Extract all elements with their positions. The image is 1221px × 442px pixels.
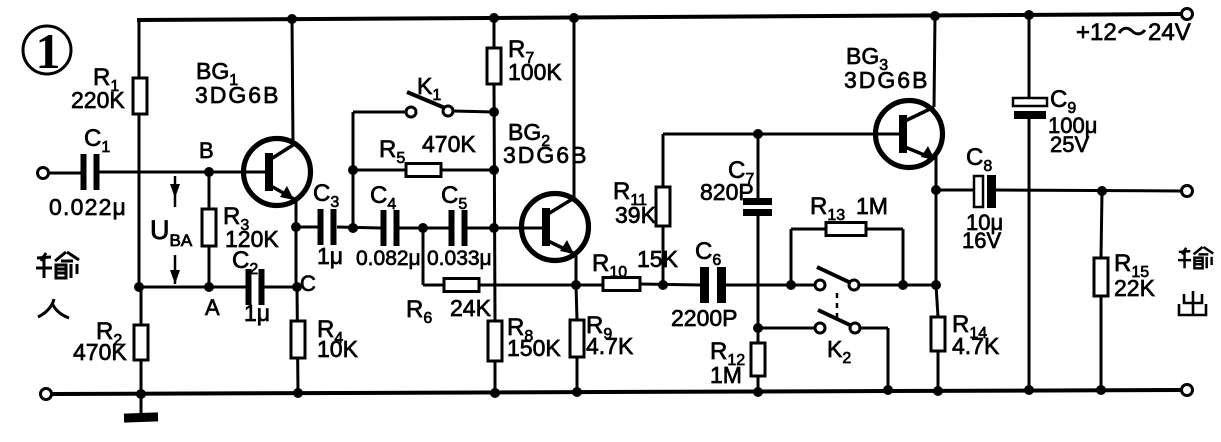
svg-text:C: C xyxy=(300,271,316,296)
capacitor C4 0.082u xyxy=(381,210,400,246)
junction R5 right / R7 branch xyxy=(489,165,499,175)
wire C5 to BG2 base via junction xyxy=(467,227,546,230)
wire R11 top lead to BG3 base line xyxy=(662,134,665,187)
input terminal upper xyxy=(38,168,49,179)
junction C3 / C4 / K1 branch xyxy=(348,223,358,233)
voltage U_BA annotation arrows xyxy=(170,176,180,284)
junction C6 / R13 / K2 upper xyxy=(786,280,796,290)
svg-text:B: B xyxy=(199,138,214,163)
wire BG3 collector to top rail xyxy=(934,16,935,107)
svg-text:1: 1 xyxy=(36,23,61,79)
resistor R4 body 10K xyxy=(291,321,305,358)
capacitor C2 1u xyxy=(246,269,265,305)
wire R5 right lead xyxy=(441,169,494,172)
wire node A line left of C2 xyxy=(139,286,246,289)
wire R6 to BG2 emitter node xyxy=(479,284,576,287)
wire C8 to output terminal xyxy=(995,190,1181,191)
wire K2 lower right contact xyxy=(860,327,888,330)
svg-text:10K: 10K xyxy=(317,336,359,362)
wire bottom ground rail xyxy=(52,390,1181,394)
label output 输 xyxy=(1178,247,1213,268)
wire BG3 emitter down through C8 node xyxy=(935,155,938,285)
junction R13 right / K2 upper line xyxy=(898,280,908,290)
output terminal lower xyxy=(1182,385,1193,396)
switch K2 upper pole xyxy=(815,267,859,290)
resistor R5 body 470K xyxy=(406,164,441,177)
svg-text:A: A xyxy=(205,295,220,320)
capacitor C8 10u 16V electrolytic xyxy=(974,175,996,208)
transistor BG1 3DG6B xyxy=(244,139,311,206)
wire BG1 emitter to C3 xyxy=(296,226,318,229)
junction bottom rail / R4 xyxy=(293,388,303,398)
wire BG3 base line xyxy=(663,133,900,136)
svg-text:100K: 100K xyxy=(508,59,562,85)
svg-text:39K: 39K xyxy=(615,202,657,228)
wire R11 bottom lead xyxy=(662,226,665,285)
svg-text:16V: 16V xyxy=(962,228,1001,253)
junction bottom rail / R12 xyxy=(753,387,763,397)
wire R6 left lead xyxy=(423,284,444,287)
wire BG1 emitter down to node C xyxy=(295,199,298,287)
svg-text:3DG6B: 3DG6B xyxy=(195,82,280,108)
svg-text:1μ: 1μ xyxy=(317,243,343,269)
capacitor C3 1u xyxy=(318,209,337,245)
svg-text:0.033μ: 0.033μ xyxy=(427,247,492,270)
capacitor C6 2200P xyxy=(700,267,726,303)
wire R14 to bottom rail xyxy=(937,351,940,391)
svg-text:150K: 150K xyxy=(507,335,561,361)
switch K2 gang link (dashed) xyxy=(836,293,839,322)
wire R1 vertical branch (top rail to node A) xyxy=(138,20,141,287)
svg-text:15K: 15K xyxy=(637,246,679,272)
junction BG2 emitter / R6 / R9 / R10 xyxy=(571,280,581,290)
junction bottom rail / R8 xyxy=(490,388,500,398)
junction R5 left / K1 branch xyxy=(348,165,358,175)
wire R13 right lead xyxy=(866,228,903,231)
junction top rail / BG1 collector xyxy=(287,14,297,24)
junction BG3 base line / C7 xyxy=(753,129,763,139)
wire BG2 collector to top rail xyxy=(573,18,576,198)
wire input terminal to C1 xyxy=(49,172,81,175)
svg-text:1μ: 1μ xyxy=(244,300,270,326)
junction bottom rail / R2 / ground xyxy=(136,389,146,399)
resistor R6 body 24K xyxy=(444,279,479,292)
label input 输 xyxy=(36,252,79,278)
svg-text:+12: +12 xyxy=(1076,19,1117,46)
junction top rail / C9 xyxy=(1024,10,1034,20)
wire C3 to C4 via junction xyxy=(337,227,381,228)
wire R13 right vertical xyxy=(902,229,905,285)
figure number 1 in circle xyxy=(23,23,71,79)
svg-text:25V: 25V xyxy=(1050,132,1089,157)
wire top rail to R7 xyxy=(493,18,496,48)
svg-text:0.022μ: 0.022μ xyxy=(49,194,127,220)
wire R3 branch node B to node A xyxy=(208,172,211,287)
svg-text:0.082μ: 0.082μ xyxy=(356,247,421,270)
wire emitter node to R9 xyxy=(576,285,577,320)
wire R15 to bottom rail xyxy=(1100,296,1103,390)
svg-text:470K: 470K xyxy=(422,131,476,157)
output terminal upper xyxy=(1182,186,1193,197)
wire R12 top lead xyxy=(757,328,760,343)
junction BG1 emitter / C3 xyxy=(291,222,301,232)
ground symbol xyxy=(124,394,158,423)
capacitor C1 0.022u xyxy=(81,154,100,190)
svg-text:820P: 820P xyxy=(700,179,754,205)
wire C4 to C5 via junction xyxy=(399,227,449,230)
svg-text:22K: 22K xyxy=(1114,275,1156,301)
junction top rail / BG2 collector xyxy=(569,13,579,23)
junction bottom rail / R9 xyxy=(572,387,582,397)
junction C4 / C5 / R6 branch xyxy=(418,223,428,233)
svg-text:1M: 1M xyxy=(710,362,742,388)
resistor R3 body 120K xyxy=(202,209,216,246)
junction bottom rail / K2 lower branch xyxy=(883,385,893,395)
junction BG3 emitter / C8 xyxy=(931,185,941,195)
wire R10 to C6 via R11 junction xyxy=(640,284,701,285)
wire R5 left lead xyxy=(353,169,406,172)
junction C5 / BG2 base / R8 branch xyxy=(489,223,499,233)
svg-text:4.7K: 4.7K xyxy=(586,333,634,359)
junction top rail / BG3 collector xyxy=(930,11,940,21)
resistor R14 body 4.7K xyxy=(931,317,945,351)
wire junction C3-C4 up to K1 xyxy=(352,112,355,228)
svg-text:24V: 24V xyxy=(1148,19,1191,46)
wire BG2 emitter down xyxy=(575,253,578,285)
resistor R1 body 220K xyxy=(133,78,147,114)
transistor BG2 3DG6B xyxy=(522,194,589,261)
wire R15 top lead xyxy=(1101,191,1102,258)
resistor R15 body 22K xyxy=(1094,258,1108,296)
wire R9 to bottom rail xyxy=(576,357,579,392)
node B junction xyxy=(204,167,214,177)
wire K1 right contact to R7 node xyxy=(453,111,494,112)
wire R2 branch node A to bottom rail xyxy=(140,287,143,394)
resistor R2 body 470K xyxy=(134,325,148,360)
svg-text:1M: 1M xyxy=(856,193,888,219)
svg-text:2200P: 2200P xyxy=(671,305,738,331)
junction bottom rail / C9 xyxy=(1024,385,1034,395)
resistor R8 body 150K xyxy=(488,321,502,361)
wire C7 bottom lead to R12 node xyxy=(757,216,760,328)
svg-text:470K: 470K xyxy=(73,339,127,365)
junction top rail / R7 xyxy=(489,13,499,23)
wire to K1 left contact xyxy=(353,111,406,114)
svg-text:24K: 24K xyxy=(450,295,492,321)
svg-text:4.7K: 4.7K xyxy=(952,333,1000,359)
wire emitter node to R14 xyxy=(936,285,938,317)
wire K2 lower to bottom rail xyxy=(887,328,890,390)
node C junction xyxy=(292,282,302,292)
junction bottom rail / R15 xyxy=(1096,385,1106,395)
svg-text:3DG6B: 3DG6B xyxy=(844,67,929,93)
node A junction at R1/R2 xyxy=(134,282,144,292)
wire C1 to BG1 base through node B xyxy=(99,171,266,174)
wire R7 bottom through K1/R5 junctions down to R8 xyxy=(494,84,495,321)
wire top supply rail xyxy=(137,14,1181,20)
transistor BG3 3DG6B xyxy=(876,101,943,168)
wire top rail to C9 xyxy=(1028,15,1031,98)
wire node C through R4 to bottom rail xyxy=(297,287,298,393)
junction BG3 emitter / R14 / K2 line xyxy=(931,280,941,290)
power supply terminal +12~24V xyxy=(1182,9,1193,20)
junction K1 / R7 xyxy=(489,107,499,117)
wire C2 to node C xyxy=(264,286,297,289)
wire R13 left lead xyxy=(791,228,826,231)
capacitor C5 0.033u xyxy=(449,210,468,246)
switch K2 lower pole xyxy=(815,310,860,333)
svg-text:220K: 220K xyxy=(71,87,125,113)
label output 出 xyxy=(1179,291,1206,315)
wire R10 left lead xyxy=(576,284,603,287)
wire C8 left lead xyxy=(936,189,974,192)
switch K1 xyxy=(406,92,453,117)
resistor R13 body 1M xyxy=(826,223,866,236)
wire R8 to bottom rail xyxy=(494,361,497,393)
wire R12 node to K2 lower left contact xyxy=(758,327,815,330)
junction C7 / R12 / K2 lower xyxy=(753,323,763,333)
input terminal lower (ground rail end) xyxy=(41,389,52,400)
wire C4-C5 junction down to R6 xyxy=(422,228,425,285)
wire R12 to bottom rail xyxy=(757,376,760,392)
junction output line / R15 xyxy=(1097,186,1107,196)
resistor R11 body 39K xyxy=(656,187,670,226)
junction bottom rail / R14 xyxy=(933,386,943,396)
resistor R12 body 1M xyxy=(751,343,765,376)
resistor R7 body 100K xyxy=(487,48,501,84)
node A junction at R3 xyxy=(204,282,214,292)
junction R10 / R11 / C6 xyxy=(658,280,668,290)
capacitor C9 100u 25V electrolytic xyxy=(1013,98,1047,119)
wire K2 upper right contact to BG3 emitter node xyxy=(859,284,936,287)
svg-text:3DG6B: 3DG6B xyxy=(503,142,588,168)
label input 入 xyxy=(38,299,69,318)
wire C7 top lead xyxy=(757,134,760,198)
resistor R10 body 15K xyxy=(603,278,640,291)
resistor R9 body 4.7K xyxy=(570,320,584,357)
wire C9 to bottom rail xyxy=(1028,119,1031,390)
wire C6 to K2 upper left contact xyxy=(726,284,815,287)
wire R13 left vertical xyxy=(790,229,793,285)
wire BG1 collector to top rail xyxy=(292,19,293,145)
capacitor C7 820P xyxy=(743,198,772,216)
